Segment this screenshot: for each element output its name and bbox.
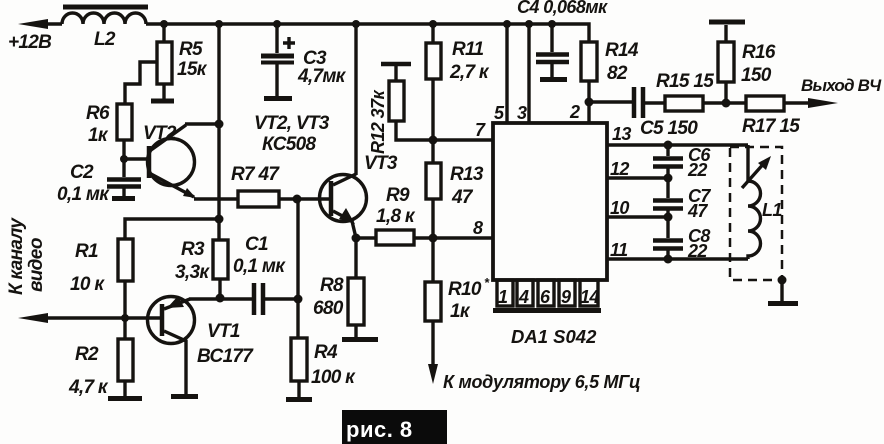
svg-text:C2: C2 — [70, 162, 94, 183]
ground under R8 — [342, 337, 378, 342]
label C3 4,7mk — [297, 48, 347, 87]
svg-text:1,8 к: 1,8 к — [376, 206, 416, 227]
svg-text:рис. 8: рис. 8 — [346, 417, 413, 442]
ground under R5 — [151, 99, 174, 104]
label R17 15 — [742, 116, 800, 137]
svg-text:C5 150: C5 150 — [640, 118, 698, 139]
svg-text:+12В: +12В — [8, 32, 52, 53]
label R12 37k rotated — [368, 90, 388, 154]
svg-text:C4 0,068мк: C4 0,068мк — [517, 0, 608, 17]
svg-text:6: 6 — [540, 287, 551, 307]
svg-text:3,3к: 3,3к — [175, 262, 210, 283]
label VT2,VT3 KC508 — [254, 113, 330, 155]
svg-text:VT2: VT2 — [143, 123, 177, 144]
svg-text:Выход ВЧ: Выход ВЧ — [801, 76, 882, 95]
inductor L1 coil — [748, 145, 761, 259]
wire pin 11 — [607, 257, 748, 260]
node video input — [121, 314, 129, 322]
svg-text:R7 47: R7 47 — [231, 164, 280, 185]
pin 2 label — [569, 102, 580, 122]
resistor R12 — [389, 66, 433, 140]
svg-text:15к: 15к — [177, 59, 208, 80]
svg-text:R14: R14 — [605, 40, 639, 61]
svg-text:2: 2 — [569, 102, 580, 122]
node pin11 cap column — [664, 255, 673, 264]
node pin13 cap column — [664, 141, 673, 150]
pin 13 label — [612, 124, 631, 144]
pin 4 label — [518, 287, 529, 307]
svg-text:DA1 S042: DA1 S042 — [511, 326, 597, 347]
capacitor C4 — [536, 24, 569, 77]
svg-text:L1: L1 — [762, 200, 782, 220]
node C1 right — [294, 295, 303, 304]
label R9 1,8k — [376, 185, 416, 227]
node R16 tap — [722, 99, 731, 108]
wire pin 13 — [607, 143, 748, 146]
pin 11 label — [610, 240, 628, 260]
svg-text:L2: L2 — [94, 29, 116, 50]
svg-text:22: 22 — [687, 160, 707, 180]
wire to pin 8 — [433, 236, 493, 239]
svg-text:4,7 к: 4,7 к — [68, 377, 109, 398]
svg-text:150: 150 — [741, 65, 772, 86]
node pin 2 — [585, 98, 594, 107]
label R5 15k — [177, 39, 208, 80]
svg-text:4,7мк: 4,7мк — [297, 66, 347, 87]
wire VT1 emitter node to C1 — [189, 297, 253, 300]
wire video input line — [30, 316, 160, 319]
resistor R13 — [426, 140, 441, 238]
svg-text:ВС177: ВС177 — [197, 346, 254, 367]
label R13 47 — [450, 164, 484, 208]
capacitor C5 — [634, 87, 665, 118]
svg-text:82: 82 — [607, 63, 628, 84]
wire +12V top rail — [30, 24, 589, 42]
node VT3 base tap — [293, 195, 302, 204]
IC bottom pin 1 box — [497, 280, 513, 306]
power +12V arrowhead — [18, 19, 48, 29]
svg-text:7: 7 — [475, 120, 486, 140]
ground under L1 screen — [768, 301, 798, 306]
node R9 right / pin8 — [429, 234, 438, 243]
resistor R7 — [238, 191, 331, 207]
wire pin 10 — [607, 215, 668, 218]
resistor R9 — [356, 230, 433, 245]
wire pin 7 — [433, 138, 493, 141]
label VT3 — [364, 153, 398, 174]
modulator output arrowhead — [428, 364, 438, 384]
svg-text:К каналу: К каналу — [6, 217, 27, 295]
pin 5 label — [494, 103, 505, 123]
op-amp U1 IC DA1 body — [493, 123, 607, 280]
wire VT2 collector to rail drop — [185, 122, 220, 125]
ground bars under IC pins — [493, 308, 601, 313]
inductor L2 — [62, 7, 148, 24]
label R15 15 — [656, 71, 714, 92]
svg-text:VT1: VT1 — [207, 321, 240, 342]
label DA1 S042 — [511, 326, 597, 347]
resistor R15 — [665, 96, 746, 111]
resistor R8 — [348, 238, 364, 337]
VT2 emitter arrowhead — [183, 188, 196, 198]
resistor R3 — [213, 240, 228, 298]
svg-text:видео: видео — [26, 238, 47, 292]
node pin10 cap column — [664, 213, 673, 222]
resistor R16 — [718, 25, 734, 103]
svg-text:R6: R6 — [86, 103, 110, 124]
wire screen to ground — [780, 280, 783, 301]
svg-text:R9: R9 — [386, 185, 410, 206]
node screen ground corner — [778, 276, 787, 285]
svg-text:22: 22 — [687, 241, 707, 261]
svg-text:47: 47 — [451, 187, 474, 208]
label L2 — [94, 29, 116, 50]
capacitor C2 — [107, 159, 141, 196]
label R16 150 — [741, 42, 776, 86]
ground under C4 — [540, 77, 567, 82]
svg-text:4: 4 — [518, 287, 529, 307]
svg-text:100 к: 100 к — [311, 367, 356, 388]
label VT2 — [143, 123, 177, 144]
wire pin 2 — [587, 102, 590, 123]
svg-text:C1: C1 — [245, 234, 268, 255]
pin 10 label — [610, 198, 629, 218]
svg-text:10: 10 — [610, 198, 629, 218]
ground under R2 — [108, 396, 142, 401]
svg-text:680: 680 — [313, 298, 344, 319]
resistor R14 — [581, 42, 597, 102]
ground under C3 — [264, 96, 292, 101]
svg-text:R2: R2 — [75, 344, 99, 365]
wire VT2 emitter to R7 — [194, 197, 238, 200]
capacitor C7 — [653, 178, 683, 217]
transistor VT2 — [124, 125, 195, 197]
label K moduljatoru 6,5MGc — [443, 372, 640, 392]
resistor R6 — [117, 104, 132, 160]
label +12V — [8, 32, 52, 53]
IC bottom pin 14 box — [580, 280, 598, 306]
svg-text:R4: R4 — [314, 342, 338, 363]
svg-text:*: * — [484, 275, 490, 290]
label C4 0,068mk — [517, 0, 608, 17]
svg-text:1к: 1к — [450, 301, 471, 322]
pin 1 label — [498, 287, 508, 307]
svg-text:К модулятору 6,5 МГц: К модулятору 6,5 МГц — [443, 372, 640, 392]
pin 14 label — [580, 287, 599, 307]
label R1 10k — [70, 241, 105, 295]
svg-text:14: 14 — [580, 287, 599, 307]
capacitor C6 — [653, 145, 683, 178]
svg-text:0,1 мк: 0,1 мк — [233, 256, 286, 277]
label R3 3,3k — [175, 239, 210, 283]
svg-text:1: 1 — [498, 287, 508, 307]
pin 8 label — [473, 218, 483, 238]
VT3 emitter arrowhead — [339, 208, 355, 224]
wire C1 node up to VT3 base line — [296, 199, 299, 299]
label R4 100k — [311, 342, 356, 388]
node pin12 cap column — [664, 174, 673, 183]
transistor VT1 — [148, 297, 195, 395]
svg-text:VT3: VT3 — [364, 153, 398, 174]
L1 tuning arrowhead — [758, 156, 771, 170]
label R14 82 — [605, 40, 639, 84]
svg-text:0,1 мк: 0,1 мк — [57, 184, 110, 205]
svg-text:3: 3 — [517, 103, 527, 123]
ground under R4 — [286, 397, 312, 402]
L1 tuning arrow — [742, 161, 766, 188]
svg-text:13: 13 — [612, 124, 631, 144]
svg-text:47: 47 — [687, 201, 708, 221]
capacitor C8 — [653, 217, 683, 259]
label C1 0,1mk — [233, 234, 286, 277]
L1 dashed screen box — [730, 147, 782, 280]
resistor R2 — [118, 318, 133, 396]
label R11 2,7k — [449, 39, 490, 83]
resistor R4 — [291, 299, 307, 397]
svg-text:R12 37к: R12 37к — [368, 90, 388, 154]
svg-text:12: 12 — [610, 159, 629, 179]
resistor R5 — [157, 24, 172, 99]
svg-text:R13: R13 — [450, 164, 484, 185]
resistor R11 — [426, 24, 441, 140]
pin 6 label — [540, 287, 551, 307]
IC bottom pin 4 box — [517, 280, 533, 306]
label C5 150 — [640, 118, 698, 139]
VT1 emitter arrowhead PNP — [167, 296, 184, 308]
svg-text:R5: R5 — [179, 39, 203, 60]
svg-text:R15 15: R15 15 — [656, 71, 714, 92]
RF output arrowhead — [808, 98, 838, 108]
svg-text:R17 15: R17 15 — [742, 116, 800, 137]
svg-text:R16: R16 — [742, 42, 776, 63]
svg-text:11: 11 — [610, 240, 628, 260]
wire pin 3 — [527, 24, 530, 123]
label R8 680 — [313, 275, 344, 319]
svg-text:1к: 1к — [88, 125, 109, 146]
pin 7 label — [475, 120, 486, 140]
svg-text:10 к: 10 к — [70, 274, 105, 295]
label K kanalu video — [6, 217, 47, 295]
pin 12 label — [610, 159, 629, 179]
label C8 22 — [687, 226, 710, 261]
label Vyhod VCh — [801, 76, 882, 95]
wire pin 12 — [607, 176, 668, 179]
wire R5 to R6 hook — [125, 62, 157, 104]
wire pin2 node to C5 — [589, 100, 632, 103]
resistor R1 — [118, 239, 133, 318]
wire R1 top — [125, 219, 219, 239]
label C6 22 — [687, 145, 711, 180]
node R3 bottom / VT1 emitter — [216, 294, 225, 303]
resistor R10 — [425, 238, 441, 372]
label R7 47 — [231, 164, 280, 185]
svg-text:R1: R1 — [75, 241, 98, 262]
capacitor C3 — [261, 24, 295, 96]
svg-text:R8: R8 — [320, 275, 344, 296]
node rail junctions — [160, 20, 556, 28]
video input arrowhead — [18, 313, 48, 323]
svg-text:R10: R10 — [448, 279, 482, 300]
node pin7 junction — [429, 136, 438, 145]
svg-text:5: 5 — [494, 103, 505, 123]
transistor VT3 — [320, 24, 367, 238]
node VT2 base junction — [120, 155, 128, 163]
svg-text:R3: R3 — [181, 239, 205, 260]
terminal bar above R12 — [381, 62, 411, 67]
label VT1 BC177 — [197, 321, 254, 367]
resistor R17 — [746, 96, 822, 111]
svg-text:R11: R11 — [452, 39, 483, 60]
node VT2 collector on vertical — [215, 120, 224, 129]
node R1 tap — [215, 215, 224, 224]
wire vertical feed from rail — [217, 24, 220, 241]
label R10* 1k — [448, 275, 490, 322]
label R6 1k — [86, 103, 110, 146]
pin 3 label — [517, 103, 527, 123]
IC bottom pin 6 box — [538, 280, 554, 306]
label L1 — [762, 200, 782, 220]
label R2 4,7k — [68, 344, 109, 398]
svg-text:2,7 к: 2,7 к — [449, 62, 490, 83]
svg-text:VT2, VT3: VT2, VT3 — [254, 113, 330, 134]
ground under VT1 — [171, 394, 198, 399]
wire pin 5 — [505, 24, 508, 123]
ground under C2 — [112, 196, 135, 201]
IC bottom pin 9 box — [559, 280, 575, 306]
svg-text:9: 9 — [561, 287, 571, 307]
terminal bar above R16 — [709, 20, 745, 25]
label C7 47 — [687, 186, 711, 221]
caption box ris.8 — [342, 410, 447, 444]
svg-text:8: 8 — [473, 218, 483, 238]
capacitor C1 — [254, 283, 298, 315]
node VT3 emitter / R8 — [352, 234, 361, 243]
label C2 0,1mk — [57, 162, 110, 205]
pin 9 label — [561, 287, 571, 307]
svg-text:КС508: КС508 — [262, 134, 316, 155]
